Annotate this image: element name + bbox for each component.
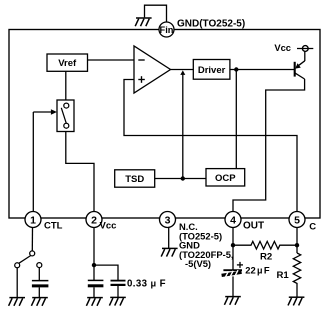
svg-text:R1: R1 [277, 270, 290, 281]
svg-text:1: 1 [30, 214, 36, 226]
svg-text:2: 2 [91, 214, 97, 226]
svg-text:OUT: OUT [243, 220, 264, 231]
svg-text:TSD: TSD [125, 174, 144, 185]
svg-text:0.33 μ F: 0.33 μ F [127, 278, 166, 289]
svg-text:R2: R2 [260, 251, 272, 262]
svg-text:Vcc: Vcc [274, 42, 291, 53]
svg-text:Vcc: Vcc [100, 220, 117, 231]
svg-text:CTL: CTL [44, 221, 63, 232]
svg-text:3: 3 [165, 214, 171, 226]
svg-text:GND(TO252-5): GND(TO252-5) [177, 19, 245, 30]
svg-text:OCP: OCP [215, 173, 236, 184]
svg-text:4: 4 [230, 214, 236, 226]
svg-text:Fin: Fin [160, 25, 174, 35]
svg-text:Vref: Vref [58, 58, 77, 69]
svg-text:5: 5 [294, 214, 300, 226]
svg-text:-5(V5): -5(V5) [185, 258, 211, 269]
svg-text:C: C [309, 221, 316, 232]
svg-text:Driver: Driver [198, 65, 226, 76]
svg-text:22μF: 22μF [245, 264, 270, 275]
